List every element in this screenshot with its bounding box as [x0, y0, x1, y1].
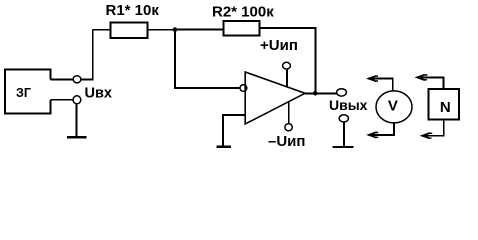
- svg-text:Uвых: Uвых: [329, 97, 368, 113]
- svg-text:ЗГ: ЗГ: [16, 86, 31, 100]
- svg-text:R1* 10к: R1* 10к: [106, 2, 160, 19]
- svg-text:N: N: [440, 99, 451, 116]
- svg-text:V: V: [388, 98, 398, 115]
- svg-text:–Uип: –Uип: [268, 133, 305, 150]
- svg-text:R2* 100к: R2* 100к: [212, 3, 274, 20]
- svg-text:Uвх: Uвх: [85, 85, 112, 101]
- svg-text:+Uип: +Uип: [260, 37, 298, 54]
